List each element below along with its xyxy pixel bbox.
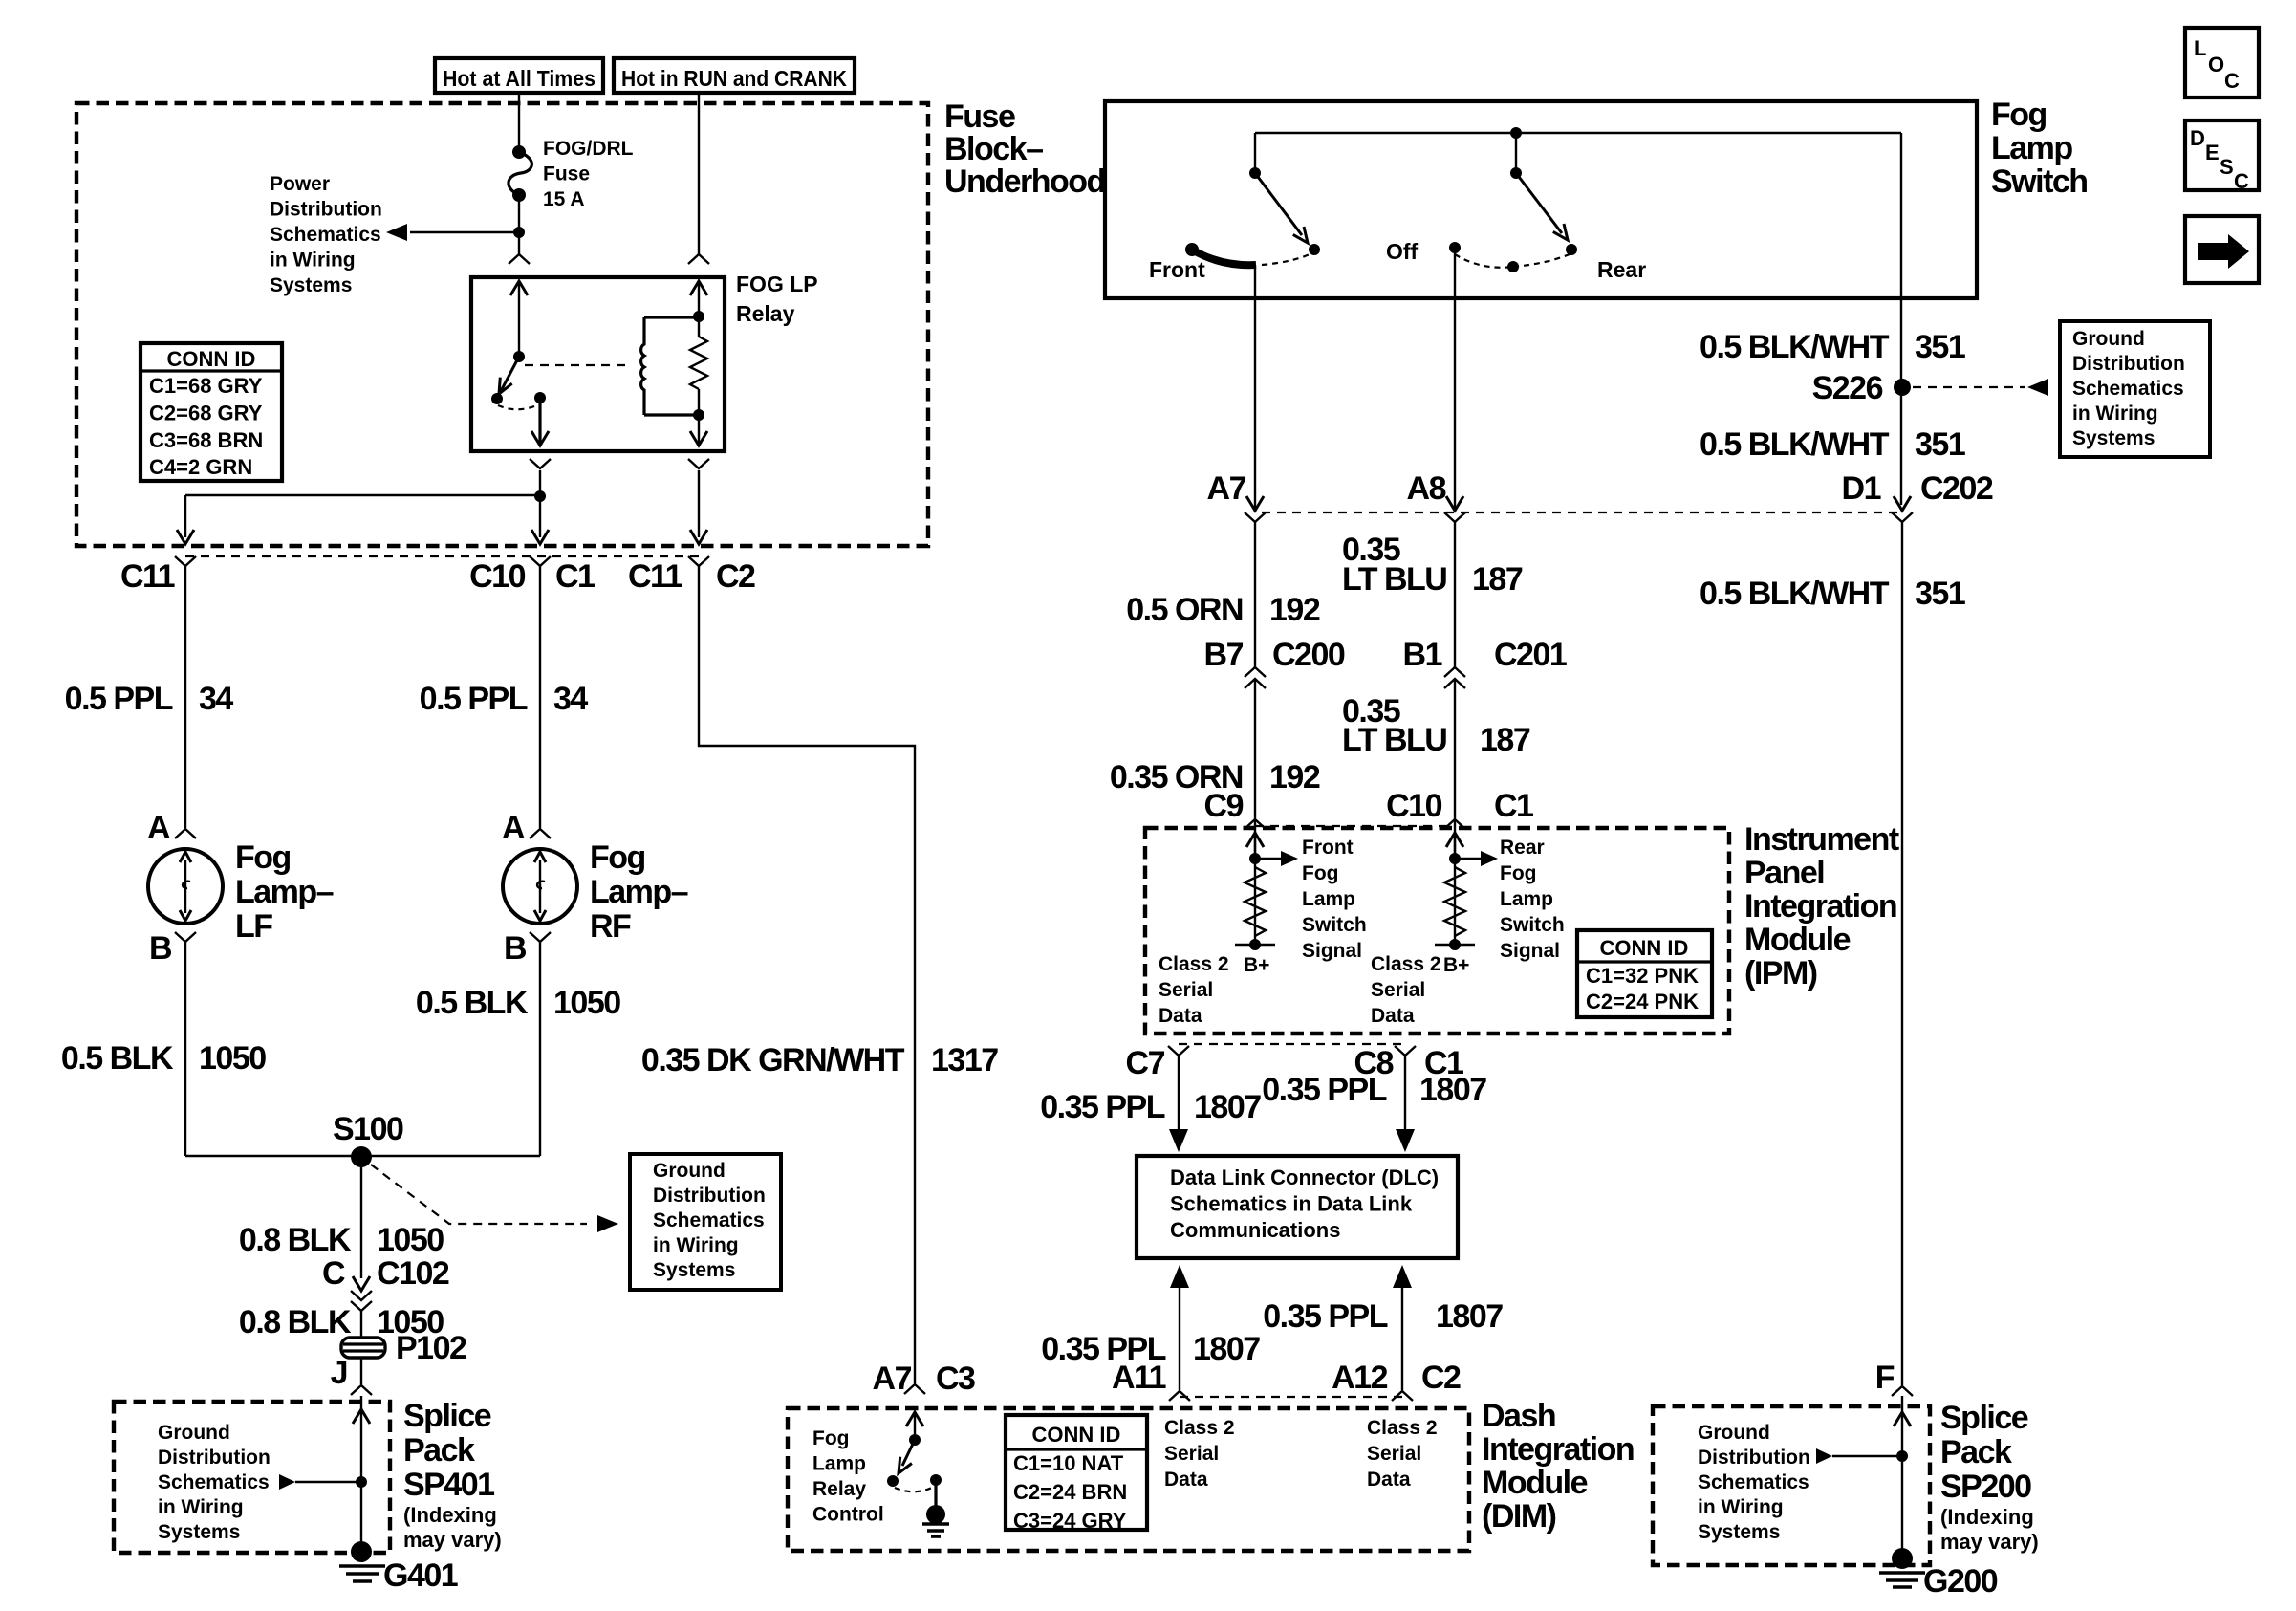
svg-text:Fog: Fog: [1302, 862, 1338, 884]
IPM front pull-up resistor: [1245, 867, 1266, 936]
relay coil pin bottom node: [693, 409, 704, 421]
reference box Ground Distribution Schematics (S226): [2060, 321, 2210, 457]
svg-text:C200: C200: [1272, 637, 1345, 673]
IPM front internal arrow right: [1255, 858, 1283, 860]
IPM CONN ID table: [1577, 930, 1712, 1017]
off travel middle node: [1507, 261, 1519, 272]
svg-text:C10: C10: [1386, 788, 1441, 824]
svg-text:C7: C7: [1126, 1045, 1165, 1081]
DIM switch contact left: [887, 1475, 899, 1487]
front switch pivot node: [1249, 167, 1261, 179]
svg-text:CONN ID: CONN ID: [1032, 1423, 1121, 1447]
power feed box 'Hot in RUN and CRANK': [614, 58, 855, 93]
DIM switch blade arrow: [902, 1440, 915, 1466]
wire off contact down (A8): [1454, 248, 1456, 512]
svg-text:Module: Module: [1744, 922, 1851, 958]
svg-text:Hot in RUN and CRANK: Hot in RUN and CRANK: [621, 66, 847, 91]
fuse block CONN ID table: [141, 343, 282, 481]
svg-text:(DIM): (DIM): [1482, 1498, 1556, 1535]
svg-text:A7: A7: [1207, 470, 1246, 507]
front switch moving contact: [1309, 244, 1320, 255]
svg-text:C1: C1: [1494, 788, 1533, 824]
IPM dashed box: [1145, 828, 1729, 1034]
wire into SP401 with arrow: [360, 1396, 362, 1552]
svg-text:O: O: [2208, 53, 2224, 76]
svg-text:Class 2: Class 2: [1367, 1417, 1438, 1439]
svg-text:0.35 PPL: 0.35 PPL: [1263, 1298, 1387, 1335]
connector C10/C1 chevron: [530, 556, 551, 566]
connector C11 chevron: [175, 556, 196, 566]
wire from Hot at All Times to fuse FOG/DRL: [518, 93, 520, 147]
svg-text:1317: 1317: [931, 1042, 998, 1078]
svg-text:Relay: Relay: [812, 1478, 866, 1500]
wire C2 to DIM fog lamp relay control: [699, 566, 915, 1383]
dashed reference from S100: [371, 1165, 587, 1224]
svg-text:Distribution: Distribution: [270, 199, 382, 221]
svg-text:in Wiring: in Wiring: [270, 250, 356, 272]
connector A7 arrow+chevron: [1246, 496, 1264, 511]
svg-text:J: J: [331, 1355, 347, 1391]
DIM input arrow: [906, 1412, 923, 1426]
svg-text:Serial: Serial: [1164, 1443, 1219, 1465]
DIM CONN ID table: [1006, 1415, 1147, 1530]
wire A7 to C200 (front fog signal): [1254, 522, 1256, 667]
fog lamp LF bulb: [148, 849, 223, 924]
svg-text:G401: G401: [383, 1557, 458, 1594]
relay coil suppression resistor: [690, 337, 707, 389]
svg-text:Class 2: Class 2: [1371, 953, 1441, 975]
svg-text:0.5 ORN: 0.5 ORN: [1126, 592, 1243, 628]
svg-text:Fog: Fog: [1991, 97, 2047, 133]
svg-text:C2=24 PNK: C2=24 PNK: [1586, 990, 1699, 1013]
legend box arrow: [2185, 216, 2259, 283]
wire drop to C11: [184, 495, 186, 537]
svg-text:34: 34: [199, 681, 233, 717]
svg-text:S100: S100: [333, 1111, 403, 1147]
rear contact node: [1566, 244, 1577, 255]
svg-text:A: A: [502, 810, 525, 846]
svg-text:A8: A8: [1407, 470, 1446, 507]
svg-text:(Indexing: (Indexing: [1940, 1505, 2034, 1529]
wire C200 to C9: [1254, 679, 1256, 818]
reference box Ground Distribution Schematics (S100): [630, 1154, 781, 1290]
svg-text:Schematics: Schematics: [270, 224, 381, 246]
fog lamp RF bulb: [503, 849, 577, 924]
svg-text:B7: B7: [1204, 637, 1244, 673]
connector C9 chevron: [1245, 819, 1266, 829]
pin J chevron: [351, 1385, 372, 1395]
svg-text:Fog: Fog: [590, 839, 645, 876]
svg-text:LT BLU: LT BLU: [1342, 561, 1446, 598]
switch common bus (top): [1255, 132, 1901, 134]
svg-text:A11: A11: [1112, 1360, 1166, 1396]
IPM front tap node: [1249, 853, 1261, 864]
svg-text:(IPM): (IPM): [1744, 955, 1817, 991]
arrow at fuse block boundary (C2): [690, 530, 707, 544]
connector C8 chevron: [1395, 1046, 1416, 1056]
DIM switch pivot node: [909, 1434, 921, 1446]
svg-text:E: E: [2205, 141, 2220, 164]
svg-text:Class 2: Class 2: [1159, 953, 1229, 975]
svg-text:LF: LF: [235, 908, 272, 945]
svg-text:B: B: [504, 930, 527, 967]
svg-text:0.5 BLK: 0.5 BLK: [61, 1040, 174, 1077]
svg-text:in Wiring: in Wiring: [158, 1496, 244, 1518]
IPM rear input arrow: [1446, 833, 1463, 847]
svg-text:Class 2: Class 2: [1164, 1417, 1235, 1439]
wire relay output to junction: [539, 470, 541, 537]
svg-text:Lamp: Lamp: [812, 1453, 866, 1475]
svg-text:C2: C2: [716, 558, 755, 595]
connector chevron into relay pin (right): [688, 254, 709, 264]
relay FOG LP Relay box: [471, 277, 725, 451]
connector C7/C8 thin dashed line: [1179, 1043, 1405, 1045]
svg-text:Schematics: Schematics: [653, 1209, 765, 1231]
pin F chevron: [1892, 1386, 1913, 1396]
relay coil: [641, 317, 644, 415]
relay switch contact (NO): [491, 393, 503, 404]
front dashed travel arc: [1262, 254, 1310, 265]
svg-text:0.8 BLK: 0.8 BLK: [239, 1222, 352, 1258]
svg-text:Serial: Serial: [1367, 1443, 1421, 1465]
connector A8 arrow+chevron: [1446, 496, 1463, 511]
IPM front input arrow: [1246, 833, 1264, 847]
pin A chevron (RF): [530, 829, 551, 838]
svg-text:RF: RF: [590, 908, 631, 945]
svg-text:C1=32 PNK: C1=32 PNK: [1586, 964, 1699, 988]
svg-text:Serial: Serial: [1159, 979, 1213, 1001]
svg-text:Underhood: Underhood: [944, 163, 1105, 200]
connector C7 chevron: [1168, 1046, 1189, 1056]
ground G200 symbol: [1879, 1571, 1925, 1575]
svg-text:Data: Data: [1367, 1469, 1411, 1491]
wire C7 to DLC with arrow: [1178, 1056, 1180, 1145]
pin A chevron (LF): [175, 829, 196, 838]
svg-text:Lamp: Lamp: [1302, 888, 1355, 910]
relay coil pin wires and arrows: [698, 283, 700, 316]
svg-text:D1: D1: [1842, 470, 1881, 507]
rear switch pivot drop: [1515, 133, 1517, 173]
svg-text:CONN ID: CONN ID: [167, 347, 256, 371]
svg-text:187: 187: [1472, 561, 1523, 598]
svg-text:0.5 BLK/WHT: 0.5 BLK/WHT: [1700, 576, 1890, 612]
svg-text:Switch: Switch: [1500, 914, 1565, 936]
DLC reference box: [1137, 1156, 1458, 1258]
svg-text:Systems: Systems: [653, 1259, 735, 1281]
svg-text:34: 34: [553, 681, 588, 717]
dashed reference from S226: [1913, 386, 2025, 388]
svg-text:A12: A12: [1332, 1360, 1387, 1396]
svg-text:(Indexing: (Indexing: [403, 1503, 497, 1527]
splice S226 node: [1894, 379, 1911, 396]
connector A11/A12 thin dashed line: [1180, 1396, 1402, 1398]
svg-text:FOG LP: FOG LP: [736, 272, 818, 296]
svg-text:Fog: Fog: [812, 1427, 849, 1449]
svg-text:Schematics: Schematics: [1698, 1471, 1809, 1493]
power feed box 'Hot at All Times': [435, 58, 603, 93]
svg-text:0.35 DK GRN/WHT: 0.35 DK GRN/WHT: [641, 1042, 905, 1078]
reference arrow inside SP200: [1816, 1448, 1832, 1464]
svg-text:0.5 BLK/WHT: 0.5 BLK/WHT: [1700, 329, 1890, 365]
DIM switch contact right: [930, 1474, 942, 1486]
svg-text:CONN ID: CONN ID: [1600, 936, 1689, 960]
svg-text:Hot at All Times: Hot at All Times: [443, 66, 596, 91]
svg-text:SP401: SP401: [403, 1467, 494, 1503]
svg-text:Rear: Rear: [1500, 837, 1545, 859]
grommet P102: [341, 1338, 385, 1358]
svg-text:192: 192: [1269, 759, 1320, 795]
relay switch blade: [501, 357, 519, 391]
svg-text:Fuse: Fuse: [944, 98, 1015, 135]
front switch blade arrow: [1255, 173, 1302, 235]
IPM front B+ node: [1249, 939, 1261, 950]
switch bus node (rear branch): [1510, 127, 1522, 139]
svg-text:Ground: Ground: [158, 1422, 230, 1444]
svg-text:Splice: Splice: [1940, 1400, 2028, 1436]
wire C102 to P102: [360, 1311, 362, 1338]
svg-text:Splice: Splice: [403, 1398, 491, 1434]
svg-text:Fuse: Fuse: [543, 163, 590, 185]
wire DIM A12 to DLC with arrow: [1401, 1286, 1403, 1390]
relay coil pin top node: [693, 311, 704, 322]
svg-text:Signal: Signal: [1500, 940, 1560, 962]
DIM ground symbol: [922, 1522, 949, 1526]
svg-text:15 A: 15 A: [543, 188, 585, 210]
svg-text:C3: C3: [936, 1361, 975, 1397]
relay switch pivot node: [513, 351, 525, 362]
IPM rear internal arrow right: [1455, 858, 1483, 860]
svg-text:Lamp: Lamp: [1991, 130, 2072, 166]
off contact node: [1449, 242, 1461, 253]
svg-text:Ground: Ground: [653, 1160, 726, 1182]
svg-text:Schematics: Schematics: [158, 1471, 270, 1493]
front wiper thick arc: [1192, 250, 1256, 265]
svg-text:Front: Front: [1302, 837, 1354, 859]
arrow reference to Power Distribution Schematics: [410, 231, 519, 233]
IPM rear B+ node: [1449, 939, 1461, 950]
wire fog lamp LF to S100: [184, 942, 186, 1156]
wire C11 to fog lamp LF: [184, 566, 186, 828]
svg-text:Systems: Systems: [158, 1521, 240, 1543]
svg-text:C3=68 BRN: C3=68 BRN: [149, 428, 263, 452]
svg-text:1807: 1807: [1193, 1331, 1260, 1367]
legend box DESC: [2185, 120, 2259, 190]
svg-text:Fog: Fog: [1500, 862, 1536, 884]
svg-text:C3=24 GRY: C3=24 GRY: [1013, 1509, 1127, 1533]
svg-text:Data Link Connector (DLC): Data Link Connector (DLC): [1170, 1165, 1439, 1189]
svg-text:C2=24 BRN: C2=24 BRN: [1013, 1480, 1127, 1504]
splice pack SP401 dashed box: [114, 1402, 390, 1553]
svg-text:S226: S226: [1812, 370, 1883, 406]
svg-text:Distribution: Distribution: [1698, 1447, 1810, 1469]
wire C9 into IPM: [1254, 819, 1256, 857]
svg-text:187: 187: [1480, 722, 1530, 758]
svg-text:Relay: Relay: [736, 301, 795, 326]
svg-text:may vary): may vary): [1940, 1530, 2039, 1554]
svg-text:1807: 1807: [1194, 1089, 1261, 1125]
svg-text:1050: 1050: [199, 1040, 266, 1077]
connector A12 chevron: [1392, 1391, 1413, 1401]
wire C202 to splice pack SP200: [1901, 522, 1903, 1385]
wire P102 to splice pack: [360, 1358, 362, 1384]
pin B chevron (RF): [530, 932, 551, 942]
svg-text:Systems: Systems: [270, 274, 352, 296]
reference arrow inside SP401: [279, 1474, 295, 1490]
svg-text:0.5 BLK/WHT: 0.5 BLK/WHT: [1700, 426, 1890, 463]
svg-text:C4=2 GRN: C4=2 GRN: [149, 455, 252, 479]
svg-text:Schematics in Data Link: Schematics in Data Link: [1170, 1192, 1413, 1216]
front contact node: [1185, 243, 1199, 256]
svg-text:Fog: Fog: [235, 839, 291, 876]
DIM switch to ground wire: [934, 1485, 937, 1508]
svg-text:C: C: [2234, 169, 2249, 193]
svg-text:Instrument: Instrument: [1744, 821, 1899, 858]
relay switch contact (to load): [534, 392, 546, 403]
DIM dashed box: [788, 1408, 1469, 1551]
connector C10 chevron: [1444, 819, 1465, 829]
svg-text:C: C: [2224, 69, 2240, 93]
connector chevron below relay (switch output): [530, 459, 551, 468]
svg-text:Lamp–: Lamp–: [590, 874, 688, 910]
wire into SP200 with arrow: [1901, 1396, 1903, 1558]
svg-text:S: S: [2220, 155, 2234, 179]
connector row A7/A8/D1 dashed line: [1262, 512, 1897, 513]
svg-text:Systems: Systems: [1698, 1521, 1780, 1543]
svg-text:Control: Control: [812, 1504, 884, 1526]
splice S100 node: [351, 1146, 372, 1167]
ground G200 node: [1892, 1548, 1913, 1569]
svg-text:LT BLU: LT BLU: [1342, 722, 1446, 758]
connector C201 double chevron: [1444, 667, 1465, 677]
svg-text:Serial: Serial: [1371, 979, 1425, 1001]
splice pack SP200 dashed box: [1653, 1406, 1930, 1565]
relay switch common pin arrow: [518, 283, 520, 357]
wire bus to left C11 drop: [185, 494, 540, 496]
svg-text:B+: B+: [1244, 954, 1269, 976]
DIM ground node: [926, 1505, 945, 1524]
legend box LOC: [2185, 28, 2259, 98]
connector C200 double chevron: [1245, 667, 1266, 677]
connector A7 chevron (DIM): [904, 1384, 925, 1394]
rear switch blade arrow: [1516, 173, 1562, 233]
svg-text:Integration: Integration: [1744, 888, 1896, 925]
svg-text:C102: C102: [377, 1255, 449, 1292]
wire C8 to DLC with arrow: [1404, 1056, 1406, 1145]
svg-text:Schematics: Schematics: [2072, 378, 2184, 400]
svg-text:351: 351: [1915, 576, 1965, 612]
wire fuse to relay: [518, 195, 520, 254]
connector line C9/C10 (thin dashed): [1255, 825, 1455, 827]
node: power distribution tap: [513, 227, 525, 238]
svg-text:Pack: Pack: [403, 1432, 475, 1469]
wire DIM A11 to DLC with arrow: [1179, 1286, 1180, 1390]
svg-text:1807: 1807: [1419, 1072, 1486, 1108]
svg-text:Systems: Systems: [2072, 427, 2155, 449]
IPM rear pull-up resistor: [1444, 867, 1465, 936]
svg-text:Ground: Ground: [1698, 1422, 1770, 1444]
svg-text:C11: C11: [120, 558, 175, 595]
svg-text:Dash: Dash: [1482, 1398, 1555, 1434]
svg-text:Communications: Communications: [1170, 1218, 1340, 1242]
front switch pivot drop: [1254, 133, 1256, 173]
fog lamp switch box: [1105, 101, 1977, 298]
svg-text:Off: Off: [1386, 239, 1419, 264]
splice S100 bus: [185, 1155, 540, 1157]
wire C201 to C10: [1454, 679, 1456, 818]
svg-text:Lamp: Lamp: [1500, 888, 1553, 910]
svg-text:0.35 PPL: 0.35 PPL: [1262, 1072, 1386, 1108]
svg-text:Integration: Integration: [1482, 1431, 1634, 1468]
SP200 junction node: [1896, 1450, 1908, 1462]
svg-text:C1=68 GRY: C1=68 GRY: [149, 374, 263, 398]
svg-text:SP200: SP200: [1940, 1469, 2031, 1505]
svg-text:192: 192: [1269, 592, 1320, 628]
svg-text:L: L: [2194, 36, 2206, 60]
connector A11 chevron: [1169, 1391, 1190, 1401]
svg-text:C2: C2: [1421, 1360, 1461, 1396]
svg-text:C202: C202: [1920, 470, 1993, 507]
connector D1 arrow+chevron: [1894, 496, 1911, 511]
svg-text:FOG/DRL: FOG/DRL: [543, 138, 634, 160]
svg-text:Distribution: Distribution: [158, 1447, 271, 1469]
svg-text:A: A: [147, 810, 170, 846]
svg-text:Panel: Panel: [1744, 855, 1824, 891]
IPM rear tap node: [1449, 853, 1461, 864]
wire A8 to C201 (rear fog signal): [1454, 522, 1456, 667]
svg-text:may vary): may vary): [403, 1528, 502, 1552]
svg-text:0.5 PPL: 0.5 PPL: [420, 681, 528, 717]
svg-text:Module: Module: [1482, 1465, 1588, 1501]
svg-text:Block–: Block–: [944, 131, 1043, 167]
ground G401 node: [351, 1541, 372, 1562]
connector line C11/C10/C1/C11/C2 (thin dashed): [185, 555, 699, 557]
svg-text:C: C: [322, 1255, 345, 1292]
connector chevron into relay pin (left): [509, 254, 530, 264]
ground G401 symbol: [339, 1564, 385, 1568]
wire S100 to C102: [360, 1157, 362, 1278]
arrow at fuse block boundary (C10): [531, 530, 549, 544]
svg-text:C2=68 GRY: C2=68 GRY: [149, 401, 263, 425]
svg-text:in Wiring: in Wiring: [1698, 1496, 1784, 1518]
svg-text:B+: B+: [1443, 954, 1469, 976]
Fuse Block-Underhood dashed boundary: [76, 103, 928, 546]
wire C10 into IPM: [1454, 819, 1456, 857]
rear switch pivot node: [1510, 167, 1522, 179]
svg-text:Data: Data: [1371, 1005, 1415, 1027]
svg-text:B: B: [149, 930, 172, 967]
wire relay coil return down: [698, 470, 700, 537]
svg-text:0.5 PPL: 0.5 PPL: [65, 681, 173, 717]
svg-text:Rear: Rear: [1597, 257, 1646, 282]
svg-text:D: D: [2190, 126, 2205, 150]
svg-text:Ground: Ground: [2072, 328, 2145, 350]
svg-text:0.35 PPL: 0.35 PPL: [1040, 1089, 1164, 1125]
svg-text:Power: Power: [270, 173, 330, 195]
wire Hot in RUN and CRANK to relay coil pin: [698, 93, 700, 254]
svg-text:F: F: [1875, 1360, 1895, 1396]
svg-text:C201: C201: [1494, 637, 1567, 673]
svg-text:1050: 1050: [553, 985, 620, 1021]
switch return wire to S226: [1900, 133, 1902, 505]
svg-text:Lamp–: Lamp–: [235, 874, 334, 910]
relay switch output arrow to box bottom: [538, 403, 541, 444]
junction node to left fog lamp branch: [534, 490, 546, 502]
svg-text:1050: 1050: [377, 1222, 444, 1258]
svg-text:in Wiring: in Wiring: [653, 1234, 739, 1256]
SP401 junction node: [356, 1476, 367, 1488]
svg-text:C1: C1: [555, 558, 595, 595]
wire fog lamp RF to S100 bus: [539, 942, 541, 1156]
